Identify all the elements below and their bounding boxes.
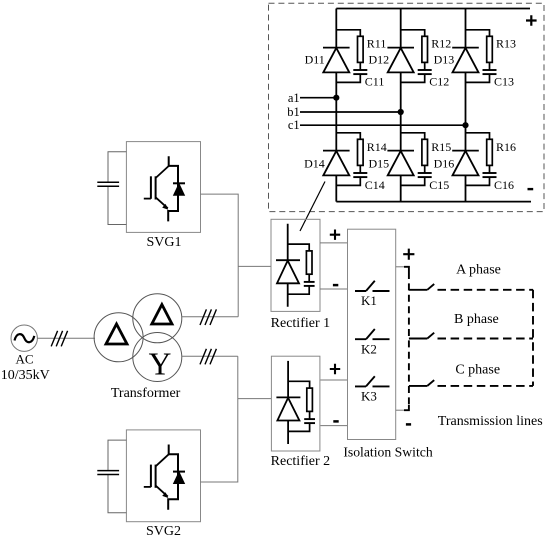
svg-text:SVG1: SVG1 bbox=[146, 235, 181, 250]
svg-text:c1: c1 bbox=[288, 118, 300, 132]
svg-text:Transformer: Transformer bbox=[111, 386, 181, 401]
svg-text:R15: R15 bbox=[431, 140, 451, 154]
svg-text:R11: R11 bbox=[367, 36, 387, 50]
svg-text:A phase: A phase bbox=[456, 263, 501, 278]
svg-text:D13: D13 bbox=[434, 53, 455, 67]
svg-text:D11: D11 bbox=[305, 53, 325, 67]
svg-text:R16: R16 bbox=[496, 140, 516, 154]
svg-text:b1: b1 bbox=[287, 105, 300, 119]
svg-text:D12: D12 bbox=[369, 53, 390, 67]
svg-text:D15: D15 bbox=[369, 156, 390, 170]
svg-text:K2: K2 bbox=[361, 342, 377, 357]
svg-text:R12: R12 bbox=[431, 36, 451, 50]
svg-text:R13: R13 bbox=[496, 36, 516, 50]
svg-text:Isolation Switch: Isolation Switch bbox=[343, 444, 432, 459]
svg-text:Transmission lines: Transmission lines bbox=[438, 414, 543, 429]
svg-text:C15: C15 bbox=[429, 178, 449, 192]
svg-text:AC: AC bbox=[15, 351, 33, 366]
svg-text:C12: C12 bbox=[429, 75, 449, 89]
svg-text:R14: R14 bbox=[367, 140, 387, 154]
svg-text:B phase: B phase bbox=[454, 312, 499, 327]
svg-text:D14: D14 bbox=[304, 156, 325, 170]
svg-text:Y: Y bbox=[149, 347, 172, 382]
svg-text:a1: a1 bbox=[288, 91, 300, 105]
svg-text:C13: C13 bbox=[494, 75, 514, 89]
svg-text:Rectifier 1: Rectifier 1 bbox=[271, 316, 330, 331]
svg-text:C14: C14 bbox=[365, 178, 385, 192]
svg-text:K1: K1 bbox=[361, 293, 377, 308]
svg-text:C16: C16 bbox=[494, 178, 514, 192]
svg-text:C phase: C phase bbox=[455, 362, 500, 377]
svg-text:C11: C11 bbox=[365, 75, 385, 89]
svg-text:Rectifier 2: Rectifier 2 bbox=[271, 454, 330, 469]
svg-text:K3: K3 bbox=[361, 389, 377, 404]
svg-text:10/35kV: 10/35kV bbox=[1, 368, 50, 383]
svg-text:D16: D16 bbox=[434, 156, 455, 170]
svg-text:SVG2: SVG2 bbox=[146, 524, 181, 539]
